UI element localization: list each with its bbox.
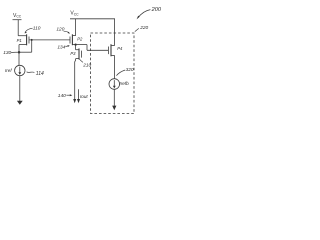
svg-text:110: 110 [33, 26, 41, 32]
ground arrow right branch [112, 106, 116, 111]
wire Vcc stem to P1 source [17, 20, 19, 36]
node junction dot P1 gate [31, 39, 33, 41]
wire P3 drain down to output [74, 59, 77, 100]
dashed box 220 [91, 33, 135, 114]
figure reference 200 arrow [137, 7, 162, 20]
svg-text:VCC: VCC [13, 13, 22, 19]
label P2 [77, 36, 83, 41]
label P3 [70, 51, 76, 56]
svg-text:220: 220 [139, 25, 148, 31]
wire P4 source down to current source 320 [114, 56, 116, 79]
label Iref [5, 68, 12, 73]
transistor P4 [108, 44, 114, 56]
wire Vcc stem to P2 source [75, 19, 77, 36]
current arrow Iout [78, 89, 80, 99]
node Vcc (left) label [13, 13, 22, 19]
node Vcc (middle) label [70, 11, 79, 17]
label Irefb [119, 81, 129, 86]
node junction dot P1 drain/gate [18, 51, 21, 54]
transistor P1 [18, 34, 29, 45]
transistor P3 [76, 48, 82, 59]
wire jog to P4 gate [87, 49, 108, 51]
wire P2 drain to jog [76, 44, 87, 46]
ground arrow left branch [17, 101, 23, 105]
wire P1 gate to P2 gate (mirror line) [29, 39, 70, 41]
svg-text:P2: P2 [77, 36, 83, 41]
label 320 with leader [116, 67, 134, 76]
svg-text:320: 320 [126, 67, 134, 73]
svg-text:140: 140 [58, 93, 66, 99]
svg-text:P1: P1 [17, 38, 22, 43]
svg-text:200: 200 [151, 7, 162, 13]
transistor P2 [70, 34, 76, 45]
label 110 with leader [24, 26, 40, 34]
label 140 with leader [58, 93, 73, 99]
svg-text:114: 114 [36, 71, 44, 77]
current source 320 arrow [113, 80, 115, 86]
current source Iref circle [15, 65, 25, 75]
label P1 [17, 38, 22, 43]
wire Vcc rail to P4 drain [70, 19, 115, 46]
label 220 with leader [135, 25, 149, 31]
svg-text:Iout: Iout [80, 94, 88, 99]
node junction dot P2 drain [74, 43, 76, 45]
svg-text:VCC: VCC [70, 11, 79, 17]
wire jog vertical [86, 45, 88, 51]
label P4 [117, 46, 123, 51]
wire diode connection vertical [31, 40, 33, 52]
wire diode connection horizontal [19, 51, 32, 53]
svg-text:120: 120 [56, 26, 64, 32]
wire 320 to ground [113, 89, 115, 106]
svg-text:134: 134 [57, 44, 65, 50]
svg-text:Irefb: Irefb [119, 81, 129, 86]
label Iout [80, 94, 88, 99]
current source Iref arrow [19, 67, 21, 73]
wire Iref to ground [19, 76, 21, 101]
output wire arrowhead [73, 99, 76, 103]
power symbol Vcc left T-bar [13, 19, 22, 21]
wire P1 drain down to Iref [18, 45, 20, 66]
svg-text:P3: P3 [70, 51, 76, 56]
current source 320 circle [109, 79, 120, 90]
wire P2 drain to P3 source [75, 45, 77, 50]
label 134 with leader [57, 44, 69, 50]
label 130 with leader [3, 50, 18, 56]
svg-text:130: 130 [3, 50, 11, 56]
svg-text:P4: P4 [117, 46, 123, 51]
label 120 with leader [56, 26, 70, 33]
label 210 with leader [79, 59, 91, 69]
label 114 with leader [27, 71, 44, 77]
svg-text:Iref: Iref [5, 68, 12, 73]
